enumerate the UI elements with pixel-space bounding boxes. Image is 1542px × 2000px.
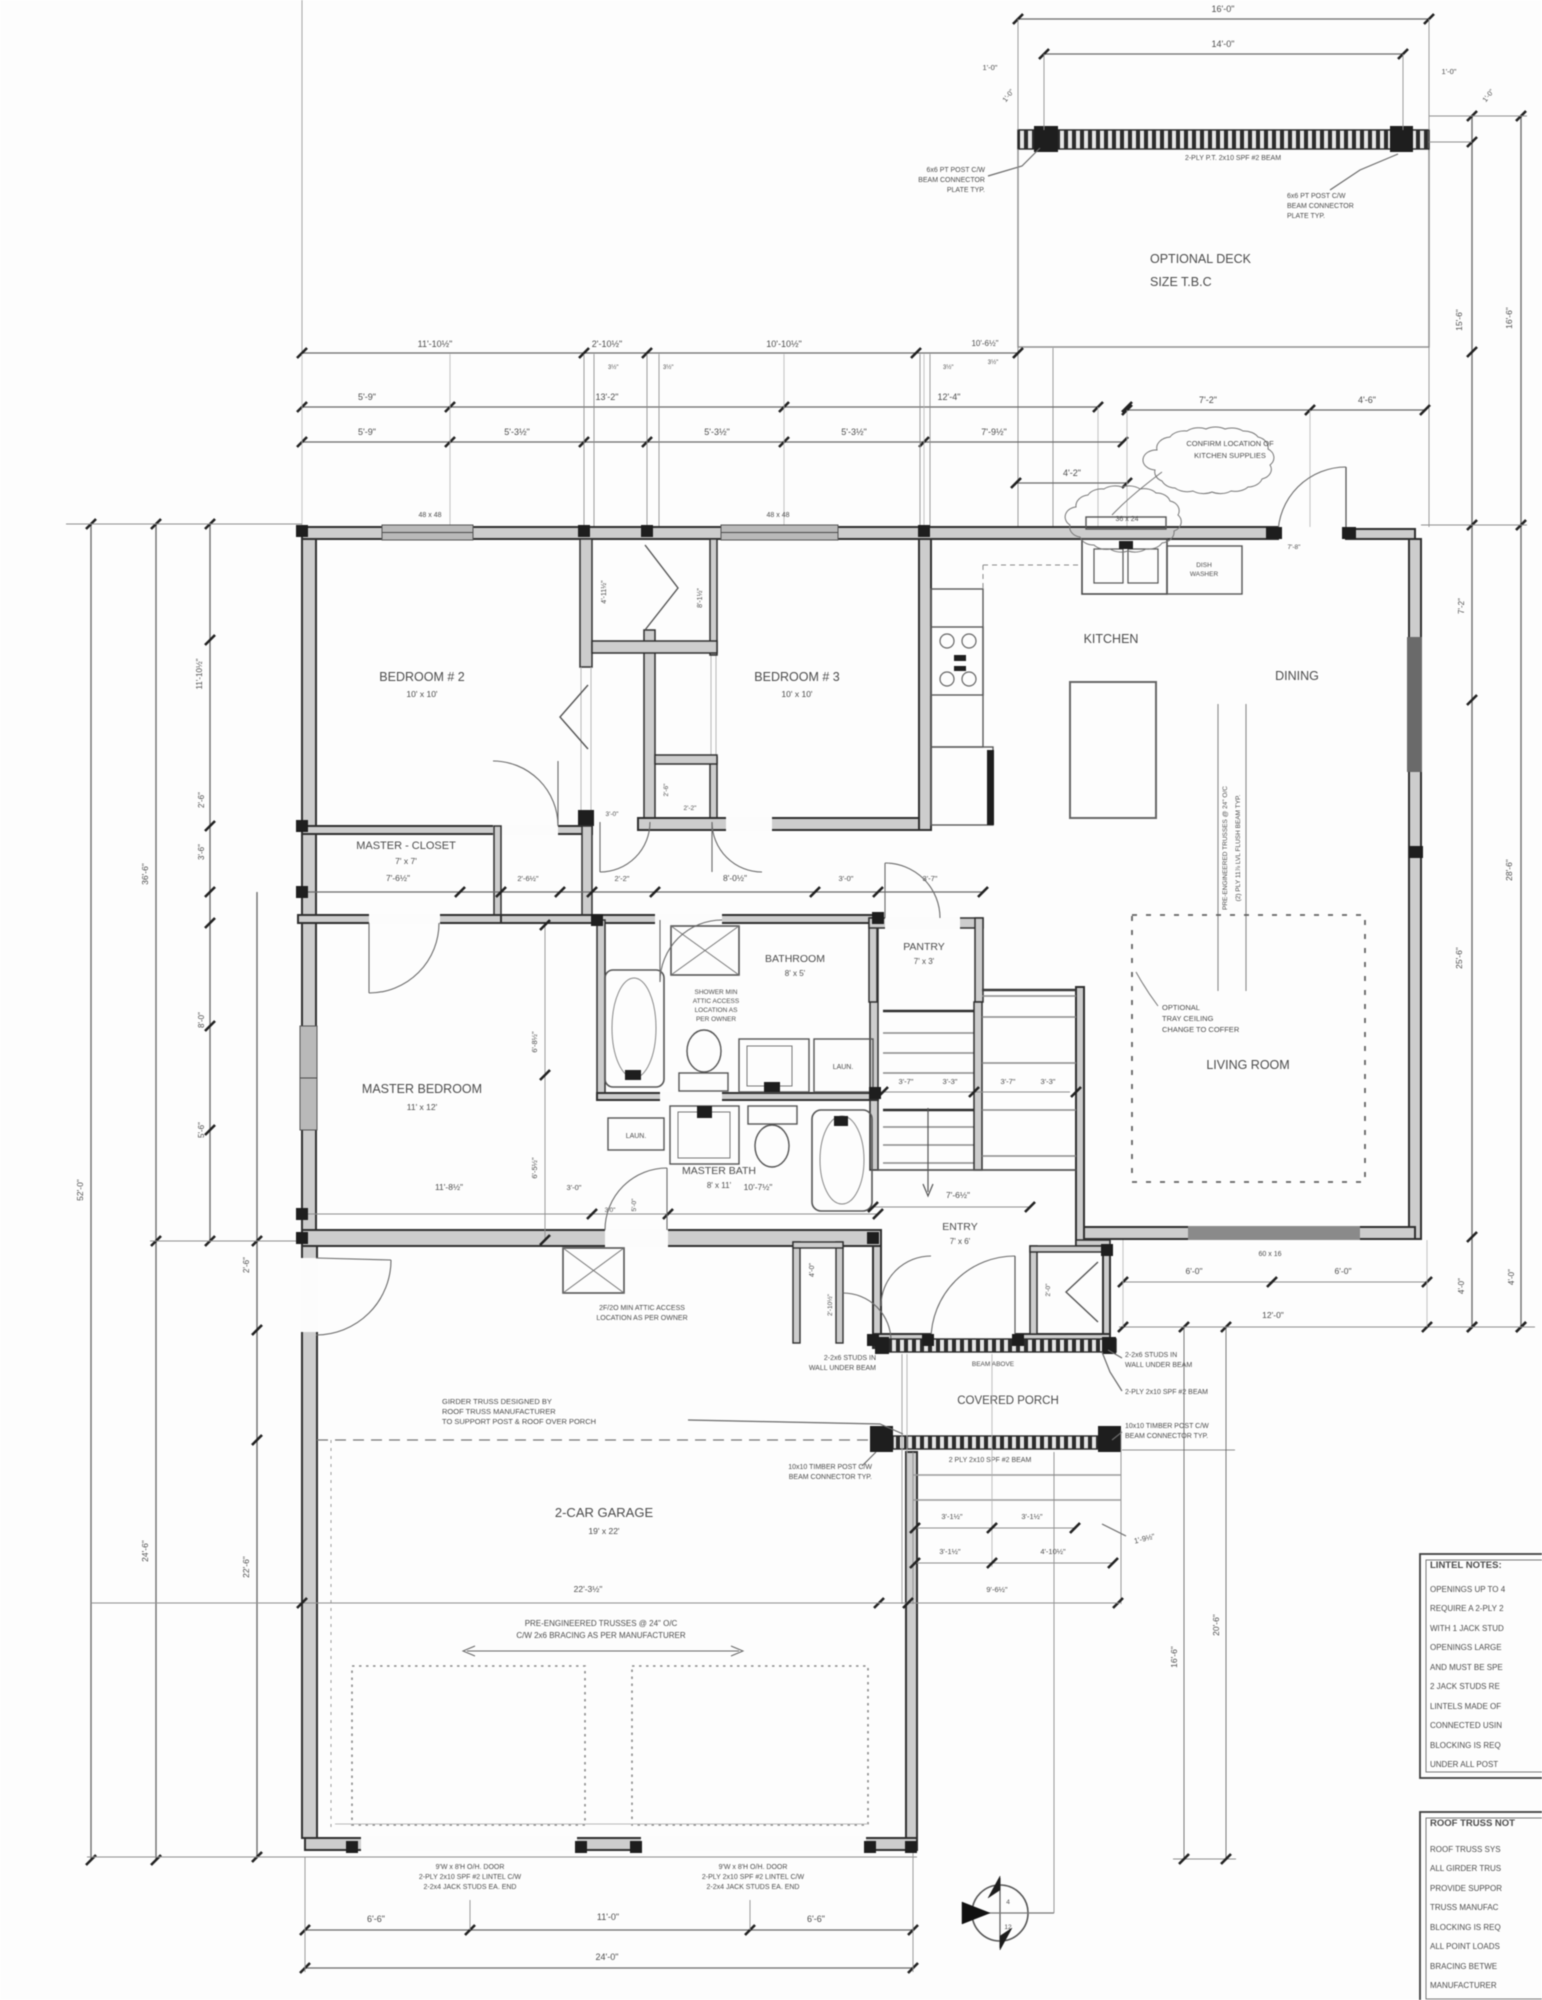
shower with X (attic access) bbox=[671, 926, 739, 975]
front door arc bbox=[931, 1256, 1015, 1340]
svg-text:BLOCKING IS REQ: BLOCKING IS REQ bbox=[1430, 1923, 1501, 1932]
svg-text:10'-6½": 10'-6½" bbox=[971, 339, 998, 348]
svg-text:48 x 48: 48 x 48 bbox=[419, 512, 442, 519]
svg-text:5'-9": 5'-9" bbox=[358, 427, 376, 437]
svg-text:11'-10½": 11'-10½" bbox=[195, 658, 204, 689]
svg-text:PER OWNER: PER OWNER bbox=[696, 1016, 736, 1023]
svg-text:TRAY CEILING: TRAY CEILING bbox=[1162, 1014, 1214, 1023]
svg-text:16'-0": 16'-0" bbox=[1212, 4, 1235, 14]
compass cross / leader bbox=[966, 1912, 1054, 1914]
left exterior wall bbox=[302, 539, 316, 1246]
svg-text:LINTEL NOTES:: LINTEL NOTES: bbox=[1430, 1560, 1502, 1571]
top connector left dims bbox=[66, 523, 302, 525]
sink basin left bbox=[1094, 549, 1123, 583]
svg-text:5'-6": 5'-6" bbox=[197, 1122, 206, 1138]
svg-text:3'-1½": 3'-1½" bbox=[939, 1547, 961, 1556]
svg-text:3'-1½": 3'-1½" bbox=[941, 1512, 963, 1521]
svg-text:COVERED PORCH: COVERED PORCH bbox=[957, 1395, 1059, 1407]
flush beam line 1 bbox=[1217, 704, 1219, 991]
bedroom2 bottom wall bbox=[302, 826, 592, 834]
svg-text:TRUSS MANUFAC: TRUSS MANUFAC bbox=[1430, 1903, 1499, 1912]
svg-text:4'-11½": 4'-11½" bbox=[600, 580, 608, 604]
svg-text:5'-3½": 5'-3½" bbox=[704, 427, 729, 437]
svg-text:PLATE TYP.: PLATE TYP. bbox=[947, 187, 985, 194]
svg-text:11'-8½": 11'-8½" bbox=[435, 1182, 463, 1192]
svg-text:OPTIONAL DECK: OPTIONAL DECK bbox=[1150, 252, 1252, 266]
closet shelf wall bbox=[592, 641, 717, 653]
svg-text:OPTIONAL: OPTIONAL bbox=[1162, 1003, 1200, 1012]
porch steps bbox=[912, 1452, 914, 1604]
entry closet jog wall bbox=[1076, 1240, 1110, 1246]
svg-text:BRACING BETWE: BRACING BETWE bbox=[1430, 1962, 1497, 1971]
dim line 11-10 col bbox=[209, 524, 211, 1241]
stair landing wall bbox=[982, 989, 1076, 991]
svg-text:15'-6": 15'-6" bbox=[1454, 309, 1464, 331]
deck post right 6x6 bbox=[1390, 126, 1413, 152]
porch step 1 bbox=[913, 1474, 1121, 1476]
lintel notes box bbox=[1420, 1554, 1542, 1778]
patio door leaf bbox=[1345, 467, 1347, 535]
svg-text:ROOF TRUSS NOT: ROOF TRUSS NOT bbox=[1430, 1818, 1515, 1829]
svg-text:5'-9": 5'-9" bbox=[358, 392, 376, 402]
svg-text:3'-1½": 3'-1½" bbox=[1021, 1512, 1043, 1521]
svg-text:28'-6": 28'-6" bbox=[1504, 859, 1514, 881]
svg-text:10' x 10': 10' x 10' bbox=[406, 689, 438, 699]
closet door arc bbox=[843, 1293, 891, 1341]
window living room (bottom wall) bbox=[1188, 1226, 1360, 1240]
svg-text:2'-0": 2'-0" bbox=[1045, 1283, 1052, 1297]
garage bottom wall bbox=[305, 1838, 917, 1850]
svg-text:7'-8": 7'-8" bbox=[1288, 544, 1302, 551]
closet divider wall B bbox=[644, 630, 655, 822]
window master bedroom (left wall) bbox=[300, 1026, 317, 1130]
svg-text:LAUN.: LAUN. bbox=[833, 1064, 854, 1071]
svg-text:ROOF TRUSS SYS: ROOF TRUSS SYS bbox=[1430, 1845, 1501, 1854]
master bedroom top wall bbox=[298, 915, 501, 923]
svg-text:6'-6": 6'-6" bbox=[367, 1914, 385, 1924]
stair center wall bbox=[974, 1002, 982, 1170]
bathroom tub bbox=[605, 970, 664, 1087]
svg-text:ENTRY: ENTRY bbox=[942, 1221, 977, 1233]
entry / porch top wall bbox=[873, 1334, 1110, 1346]
svg-text:OPENINGS UP TO 4: OPENINGS UP TO 4 bbox=[1430, 1585, 1506, 1594]
svg-text:DINING: DINING bbox=[1275, 669, 1319, 683]
laundry box right bbox=[814, 1039, 873, 1092]
svg-text:PROVIDE SUPPOR: PROVIDE SUPPOR bbox=[1430, 1884, 1502, 1893]
svg-text:52'-0": 52'-0" bbox=[75, 1179, 85, 1201]
svg-text:WALL UNDER BEAM: WALL UNDER BEAM bbox=[1125, 1362, 1192, 1369]
mb toilet tank bbox=[748, 1106, 797, 1124]
right exterior wall (dining) bbox=[1409, 539, 1421, 1239]
svg-text:11'-10½": 11'-10½" bbox=[418, 339, 453, 349]
deck dimension 16ft top bbox=[1018, 18, 1429, 20]
dim line 22-6 bbox=[256, 892, 258, 1857]
small jog right wall bbox=[1409, 846, 1423, 858]
deck side extension lines bbox=[1017, 149, 1019, 527]
dim line 36-6 / 24-6 bbox=[155, 524, 157, 1860]
roof truss notes box bbox=[1420, 1812, 1542, 2000]
svg-text:7' x 7': 7' x 7' bbox=[395, 856, 417, 866]
svg-text:PRE-ENGINEERED TRUSSES @ 24" O: PRE-ENGINEERED TRUSSES @ 24" O/C bbox=[1222, 786, 1229, 910]
bifold door bedroom3 closet bbox=[645, 545, 678, 630]
svg-text:16'-6": 16'-6" bbox=[1169, 1646, 1179, 1668]
svg-text:11' x 12': 11' x 12' bbox=[407, 1102, 438, 1112]
svg-text:10'-7½": 10'-7½" bbox=[744, 1182, 773, 1192]
svg-text:2-PLY 2x10 SPF #2 BEAM: 2-PLY 2x10 SPF #2 BEAM bbox=[1125, 1389, 1208, 1396]
cloud leader bbox=[1112, 472, 1162, 515]
corner jamb blocks bbox=[296, 525, 308, 537]
garage bottom dims bbox=[305, 1856, 917, 1858]
bathroom vanity bbox=[739, 1039, 809, 1092]
svg-text:(2) PLY 11⅞ LVL FLUSH BEAM TYP: (2) PLY 11⅞ LVL FLUSH BEAM TYP. bbox=[1235, 794, 1242, 901]
svg-text:UNDER ALL POST: UNDER ALL POST bbox=[1430, 1760, 1498, 1769]
svg-text:1'-0": 1'-0" bbox=[983, 63, 998, 72]
kitchen/bedroom3 wall bbox=[919, 539, 931, 830]
compass north black bbox=[988, 1876, 1000, 1898]
svg-text:10' x 10': 10' x 10' bbox=[781, 689, 813, 699]
svg-text:DISH: DISH bbox=[1196, 562, 1212, 569]
hall door arc left bbox=[600, 822, 650, 872]
porch step 2 bbox=[913, 1499, 1121, 1501]
svg-text:TO SUPPORT POST & ROOF OVER PO: TO SUPPORT POST & ROOF OVER PORCH bbox=[442, 1417, 596, 1426]
svg-text:CHANGE TO COFFER: CHANGE TO COFFER bbox=[1162, 1025, 1240, 1034]
hall wall A upper bbox=[580, 539, 592, 667]
dim connector y1330 ticks bbox=[1179, 1322, 1189, 1332]
stair-living wall bbox=[1076, 987, 1084, 1246]
svg-text:12: 12 bbox=[1004, 1924, 1012, 1931]
svg-text:7'-6½": 7'-6½" bbox=[386, 873, 410, 883]
svg-text:12'-0": 12'-0" bbox=[1262, 1310, 1284, 1320]
garage inner dashed bbox=[330, 1440, 332, 1830]
top dimension row C 5-3 halves bbox=[302, 441, 1123, 443]
sink bumpout bbox=[1086, 517, 1166, 529]
svg-text:3½": 3½" bbox=[943, 364, 953, 371]
svg-text:3½": 3½" bbox=[663, 364, 673, 371]
window bedroom2 48x48 bbox=[382, 525, 473, 540]
svg-text:5'-3½": 5'-3½" bbox=[504, 427, 529, 437]
svg-text:3'-3": 3'-3" bbox=[943, 1077, 958, 1086]
svg-text:36 x 24: 36 x 24 bbox=[1116, 516, 1139, 523]
svg-text:LOCATION AS: LOCATION AS bbox=[695, 1007, 739, 1014]
pantry door arc bbox=[885, 863, 940, 918]
sink cabinet bbox=[1082, 539, 1167, 594]
svg-text:BLOCKING IS REQ: BLOCKING IS REQ bbox=[1430, 1741, 1501, 1750]
svg-text:2 JACK STUDS RE: 2 JACK STUDS RE bbox=[1430, 1682, 1500, 1691]
svg-text:19' x 22': 19' x 22' bbox=[588, 1526, 620, 1536]
svg-text:ATTIC ACCESS: ATTIC ACCESS bbox=[693, 998, 740, 1005]
svg-text:24'-0": 24'-0" bbox=[596, 1952, 619, 1962]
svg-text:ALL GIRDER TRUS: ALL GIRDER TRUS bbox=[1430, 1864, 1501, 1873]
svg-text:2-CAR GARAGE: 2-CAR GARAGE bbox=[555, 1505, 654, 1520]
svg-text:AND MUST BE SPE: AND MUST BE SPE bbox=[1430, 1663, 1503, 1672]
svg-text:BEAM CONNECTOR TYP.: BEAM CONNECTOR TYP. bbox=[789, 1474, 872, 1481]
svg-text:2-2x4 JACK STUDS EA. END: 2-2x4 JACK STUDS EA. END bbox=[707, 1884, 800, 1891]
upper cabinet dashed bbox=[983, 564, 1082, 566]
svg-text:3'-0": 3'-0" bbox=[606, 811, 620, 818]
bathroom/stair wall bbox=[870, 918, 878, 1170]
bathroom top wall bbox=[501, 915, 878, 923]
sheet match line top bbox=[301, 0, 303, 353]
svg-text:3½": 3½" bbox=[608, 364, 618, 371]
svg-text:20'-6": 20'-6" bbox=[1211, 1614, 1221, 1636]
entry left wall bbox=[873, 1246, 881, 1348]
svg-text:2'-6½": 2'-6½" bbox=[517, 874, 539, 883]
svg-text:10'-10½": 10'-10½" bbox=[766, 339, 801, 349]
stair bottom edge bbox=[877, 1169, 1076, 1171]
porch dims bbox=[915, 1527, 1075, 1529]
entry closet top wall bbox=[1030, 1246, 1110, 1252]
garage door dotted left bbox=[352, 1666, 585, 1825]
side door leaf bbox=[316, 1258, 391, 1260]
side door arc bbox=[316, 1260, 391, 1335]
svg-text:ROOF TRUSS MANUFACTURER: ROOF TRUSS MANUFACTURER bbox=[442, 1407, 556, 1416]
svg-text:7' x 3': 7' x 3' bbox=[914, 957, 935, 966]
svg-text:9'W x 8'H O/H. DOOR: 9'W x 8'H O/H. DOOR bbox=[719, 1864, 788, 1871]
porch post left 10x10 bbox=[870, 1426, 893, 1452]
master bath vanity bbox=[670, 1106, 739, 1164]
svg-text:4'-6": 4'-6" bbox=[1358, 395, 1376, 405]
svg-text:2-PLY P.T. 2x10 SPF #2 BEAM: 2-PLY P.T. 2x10 SPF #2 BEAM bbox=[1185, 155, 1281, 162]
store closet left wall bbox=[793, 1242, 800, 1343]
entry closet bifold bbox=[1066, 1262, 1098, 1322]
interior dim line x545 bbox=[544, 925, 546, 1240]
svg-text:8' x 11': 8' x 11' bbox=[707, 1181, 732, 1190]
svg-text:BEAM CONNECTOR TYP.: BEAM CONNECTOR TYP. bbox=[1125, 1433, 1208, 1440]
corridor dimension row bbox=[302, 891, 983, 893]
door opening in master wing bottom wall bbox=[605, 1229, 668, 1247]
window bedroom3 48x48 bbox=[721, 525, 838, 540]
svg-text:4'-0": 4'-0" bbox=[809, 1263, 816, 1277]
svg-text:4'-0": 4'-0" bbox=[1507, 1269, 1516, 1285]
bedroom3 bottom wall bbox=[638, 818, 931, 830]
connector y1241 bbox=[150, 1240, 302, 1242]
svg-text:BEAM CONNECTOR: BEAM CONNECTOR bbox=[918, 177, 985, 184]
stair top nosing bbox=[883, 1010, 974, 1013]
top wall right of patio door bbox=[1346, 529, 1415, 539]
closet mid wall bbox=[655, 755, 717, 764]
deck beam (hatched) 2-PLY P.T. 2x10 bbox=[1018, 130, 1429, 149]
bifold door bedroom2 closet bbox=[560, 685, 588, 749]
entry side door arc bbox=[881, 1256, 931, 1306]
svg-text:SIZE T.B.C: SIZE T.B.C bbox=[1150, 275, 1212, 289]
master bedroom bottom dim row bbox=[302, 1213, 878, 1215]
svg-text:6x6 PT POST C/W: 6x6 PT POST C/W bbox=[1287, 193, 1346, 200]
svg-text:BEDROOM # 3: BEDROOM # 3 bbox=[754, 670, 839, 684]
svg-text:2F/2O MIN ATTIC ACCESS: 2F/2O MIN ATTIC ACCESS bbox=[599, 1305, 685, 1312]
svg-text:SHOWER MIN: SHOWER MIN bbox=[695, 989, 738, 996]
store closet right wall bbox=[836, 1242, 843, 1343]
bedroom2 door arc bbox=[493, 761, 558, 826]
kitchen top dims 7-2 / 4-6 / 4-2 bbox=[1127, 409, 1425, 411]
flush beam line 2 bbox=[1245, 704, 1247, 991]
svg-text:8'-0½": 8'-0½" bbox=[723, 873, 747, 883]
svg-text:7' x 6': 7' x 6' bbox=[950, 1237, 971, 1246]
svg-text:LAUN.: LAUN. bbox=[626, 1133, 647, 1140]
optional deck outline bbox=[1018, 130, 1429, 347]
dishwasher bbox=[1167, 546, 1242, 594]
svg-text:7'-2": 7'-2" bbox=[1457, 598, 1466, 614]
deck dimension 14ft bbox=[1044, 53, 1403, 55]
svg-text:13'-2": 13'-2" bbox=[596, 392, 619, 402]
svg-text:8' x 5': 8' x 5' bbox=[785, 969, 806, 978]
master wing bottom wall bbox=[302, 1230, 881, 1246]
svg-text:10x10 TIMBER POST C/W: 10x10 TIMBER POST C/W bbox=[788, 1464, 872, 1471]
living room dashed tray ceiling bbox=[1132, 915, 1365, 1182]
stair direction arrow bbox=[927, 1108, 929, 1192]
svg-text:KITCHEN SUPPLIES: KITCHEN SUPPLIES bbox=[1194, 451, 1266, 460]
porch post right 10x10 bbox=[1098, 1426, 1121, 1452]
svg-text:LOCATION AS PER OWNER: LOCATION AS PER OWNER bbox=[596, 1315, 687, 1322]
girder truss dashed line bbox=[317, 1439, 872, 1441]
svg-text:11'-0": 11'-0" bbox=[597, 1912, 619, 1922]
compass needle bbox=[999, 1878, 1001, 1948]
svg-text:36'-6": 36'-6" bbox=[140, 863, 150, 885]
svg-text:48 x 48: 48 x 48 bbox=[767, 512, 790, 519]
svg-text:5'-3½": 5'-3½" bbox=[841, 427, 866, 437]
right vertical dimension line 15-6 / 25-6 / 4-0 bbox=[1471, 116, 1473, 1327]
svg-text:2'-6": 2'-6" bbox=[197, 792, 206, 808]
svg-text:2'-10½": 2'-10½" bbox=[826, 1293, 834, 1316]
wall C upper bbox=[710, 539, 717, 655]
svg-text:BEAM CONNECTOR: BEAM CONNECTOR bbox=[1287, 203, 1354, 210]
svg-text:3'-7": 3'-7" bbox=[899, 1077, 914, 1086]
stair right run bbox=[982, 995, 1076, 997]
svg-text:2'-2": 2'-2" bbox=[684, 805, 698, 812]
garage right wall bbox=[906, 1452, 917, 1838]
garage door dotted right bbox=[632, 1666, 868, 1825]
svg-text:PRE-ENGINEERED TRUSSES @ 24" O: PRE-ENGINEERED TRUSSES @ 24" O/C bbox=[525, 1619, 678, 1628]
svg-text:6x6 PT POST C/W: 6x6 PT POST C/W bbox=[927, 167, 986, 174]
svg-text:6'-0": 6'-0" bbox=[1335, 1266, 1352, 1276]
svg-text:4: 4 bbox=[1006, 1899, 1010, 1906]
porch beam above (hatched) bbox=[881, 1339, 1116, 1352]
svg-text:4'-0": 4'-0" bbox=[1457, 1278, 1466, 1294]
svg-text:7'-6½": 7'-6½" bbox=[946, 1190, 970, 1200]
svg-text:6'-0": 6'-0" bbox=[1186, 1266, 1203, 1276]
patio door arc bbox=[1278, 467, 1346, 535]
master bath door arc bbox=[605, 1168, 667, 1230]
svg-text:2-PLY 2x10 SPF #2 LINTEL C/W: 2-PLY 2x10 SPF #2 LINTEL C/W bbox=[702, 1874, 805, 1881]
svg-text:WALL UNDER BEAM: WALL UNDER BEAM bbox=[809, 1365, 876, 1372]
svg-text:25'-6": 25'-6" bbox=[1454, 947, 1464, 969]
kitchen counter along bedroom wall bbox=[931, 589, 983, 747]
svg-text:BEAM ABOVE: BEAM ABOVE bbox=[972, 1361, 1015, 1368]
svg-text:7'-9½": 7'-9½" bbox=[981, 427, 1006, 437]
svg-text:7'-2": 7'-2" bbox=[1199, 395, 1217, 405]
svg-text:2-PLY 2x10 SPF #2 LINTEL C/W: 2-PLY 2x10 SPF #2 LINTEL C/W bbox=[419, 1874, 522, 1881]
kitchen island bbox=[1070, 682, 1156, 818]
svg-text:8'-1½": 8'-1½" bbox=[696, 588, 704, 608]
bathroom door arc bbox=[660, 920, 722, 982]
svg-text:3'-0": 3'-0" bbox=[567, 1183, 582, 1192]
svg-text:2-2x6 STUDS IN: 2-2x6 STUDS IN bbox=[1125, 1352, 1177, 1359]
svg-text:2'-6": 2'-6" bbox=[663, 783, 670, 797]
svg-text:10x10 TIMBER POST C/W: 10x10 TIMBER POST C/W bbox=[1125, 1423, 1209, 1430]
stair dims bbox=[880, 1091, 1070, 1093]
sink revision cloud bbox=[1065, 486, 1181, 552]
garage left wall bbox=[302, 1246, 317, 1838]
svg-text:6'-8½": 6'-8½" bbox=[530, 1031, 539, 1053]
svg-text:REQUIRE A 2-PLY 2: REQUIRE A 2-PLY 2 bbox=[1430, 1604, 1504, 1613]
svg-text:ALL POINT LOADS: ALL POINT LOADS bbox=[1430, 1942, 1500, 1951]
attic access box bbox=[563, 1248, 624, 1293]
laundry box left bbox=[608, 1118, 664, 1150]
master bedroom door arc bbox=[369, 923, 439, 993]
svg-text:2'-2": 2'-2" bbox=[615, 874, 630, 883]
closet right wall bbox=[494, 826, 501, 919]
dim line 52-0 bbox=[90, 524, 92, 1860]
hall wall at corridor bbox=[582, 826, 592, 920]
window dining (right wall) bbox=[1407, 637, 1422, 772]
porch vertical dims 16-6 20-6 bbox=[1183, 1327, 1185, 1859]
svg-text:GIRDER TRUSS DESIGNED BY: GIRDER TRUSS DESIGNED BY bbox=[442, 1397, 552, 1406]
wall C lower bbox=[710, 757, 717, 822]
svg-text:6'-5½": 6'-5½" bbox=[530, 1157, 539, 1179]
top exterior wall bbox=[302, 527, 1278, 539]
entry closet left wall bbox=[1030, 1246, 1037, 1334]
svg-text:WITH 1 JACK STUD: WITH 1 JACK STUD bbox=[1430, 1624, 1504, 1633]
pantry left wall bbox=[869, 918, 877, 1002]
porch beam (hatched) bbox=[893, 1436, 1098, 1449]
svg-text:WASHER: WASHER bbox=[1190, 571, 1219, 578]
svg-text:2 PLY 2x10 SPF #2 BEAM: 2 PLY 2x10 SPF #2 BEAM bbox=[949, 1457, 1032, 1464]
svg-text:LINTELS MADE OF: LINTELS MADE OF bbox=[1430, 1702, 1501, 1711]
svg-text:4'-2": 4'-2" bbox=[1063, 468, 1081, 478]
svg-text:OPENINGS LARGE: OPENINGS LARGE bbox=[1430, 1643, 1502, 1652]
svg-text:5'-0": 5'-0" bbox=[631, 1198, 638, 1212]
svg-text:3'0": 3'0" bbox=[605, 1207, 616, 1214]
svg-text:PANTRY: PANTRY bbox=[903, 941, 945, 953]
svg-text:3'-0": 3'-0" bbox=[839, 874, 854, 883]
bath/masterbath wall bbox=[597, 1093, 878, 1100]
sink basin right bbox=[1128, 549, 1158, 583]
svg-text:6'-6": 6'-6" bbox=[807, 1914, 825, 1924]
svg-text:3'-7": 3'-7" bbox=[923, 874, 938, 883]
entry closet right wall bbox=[1103, 1246, 1110, 1334]
svg-text:MASTER - CLOSET: MASTER - CLOSET bbox=[356, 840, 456, 852]
compass west black bbox=[962, 1902, 990, 1924]
svg-text:CONFIRM LOCATION OF: CONFIRM LOCATION OF bbox=[1186, 439, 1274, 448]
svg-text:KITCHEN: KITCHEN bbox=[1084, 632, 1139, 646]
svg-text:LIVING ROOM: LIVING ROOM bbox=[1206, 1058, 1289, 1072]
svg-text:4'-10½": 4'-10½" bbox=[1040, 1547, 1066, 1556]
svg-text:3'-7": 3'-7" bbox=[1001, 1077, 1016, 1086]
svg-text:3'-3": 3'-3" bbox=[1041, 1077, 1056, 1086]
svg-text:14'-0": 14'-0" bbox=[1212, 39, 1235, 49]
extension lines from row ticks to wall bbox=[301, 354, 303, 527]
deck post left 6x6 bbox=[1034, 126, 1058, 152]
svg-text:2'-10½": 2'-10½" bbox=[592, 339, 622, 349]
toilet tank bbox=[679, 1073, 728, 1091]
svg-text:2-2x6 STUDS IN: 2-2x6 STUDS IN bbox=[824, 1355, 876, 1362]
svg-text:2-2x4 JACK STUDS EA. END: 2-2x4 JACK STUDS EA. END bbox=[424, 1884, 517, 1891]
svg-text:MASTER BEDROOM: MASTER BEDROOM bbox=[362, 1082, 482, 1096]
compass south black bbox=[1000, 1928, 1012, 1950]
living room bottom wall bbox=[1081, 1227, 1415, 1239]
svg-text:9'-6½": 9'-6½" bbox=[986, 1585, 1008, 1594]
kitchen supplies cloud bbox=[1143, 427, 1274, 494]
master bath tub bbox=[812, 1110, 872, 1211]
svg-text:8'-0": 8'-0" bbox=[197, 1012, 206, 1028]
svg-text:60 x 16: 60 x 16 bbox=[1259, 1251, 1282, 1258]
store closet top wall bbox=[793, 1242, 843, 1248]
svg-text:16'-6": 16'-6" bbox=[1504, 307, 1514, 329]
truss arrow bbox=[467, 1650, 739, 1652]
svg-text:24'-6": 24'-6" bbox=[140, 1540, 150, 1562]
extension line to north arrow bbox=[1053, 1452, 1055, 1913]
pantry right wall bbox=[975, 918, 983, 1002]
svg-text:1'-0": 1'-0" bbox=[1442, 67, 1457, 76]
